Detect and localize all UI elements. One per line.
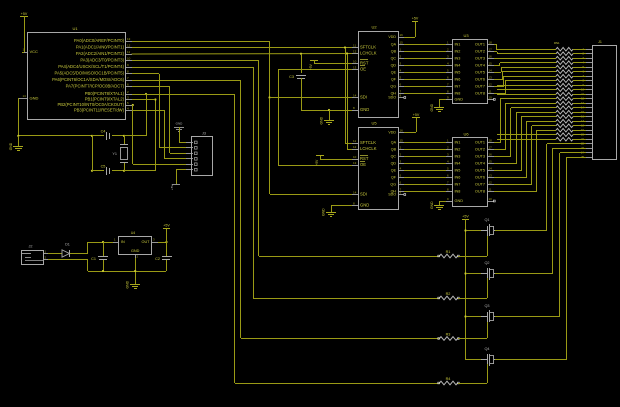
node SER junction bbox=[268, 96, 270, 98]
U3 pin 3 IN3 bbox=[446, 58, 452, 60]
power +5V below J3 bbox=[172, 184, 180, 186]
U2 pin 7 QH bbox=[398, 93, 404, 95]
svg-text:OUT: OUT bbox=[141, 240, 150, 244]
U5 pin 16 VDD bbox=[398, 132, 404, 134]
driver U6 body bbox=[453, 138, 488, 207]
svg-text:10: 10 bbox=[127, 57, 131, 61]
U5 OE overline bbox=[360, 161, 365, 163]
svg-text:QB: QB bbox=[391, 148, 397, 152]
U6 pin 16 OUT3 bbox=[487, 156, 494, 158]
U6 pin 2 IN2 bbox=[446, 149, 452, 151]
svg-text:GND: GND bbox=[320, 116, 324, 124]
resistor RN row 17 bbox=[556, 119, 573, 123]
U6 pin 4 IN4 bbox=[446, 163, 452, 165]
wire PA6 row to R3 bus bbox=[132, 80, 241, 82]
svg-text:+5V: +5V bbox=[462, 215, 469, 219]
svg-text:13: 13 bbox=[127, 37, 131, 41]
svg-text:13: 13 bbox=[489, 174, 493, 178]
resistor RN row 20 bbox=[556, 133, 573, 137]
U5 pin 11 SFTCLK bbox=[352, 143, 358, 145]
svg-text:Y1: Y1 bbox=[112, 152, 117, 156]
wire crystal bottom to PB1 bbox=[124, 170, 155, 172]
svg-text:13: 13 bbox=[489, 76, 493, 80]
U1 pin 5 PB2 bbox=[126, 105, 132, 107]
power +5V at U5 VDD bbox=[404, 132, 416, 134]
U3 pin 11 OUT8 bbox=[487, 93, 494, 95]
J1 pin 6 bbox=[586, 71, 592, 73]
node ground rail junction bbox=[17, 135, 19, 137]
U3 pin 12 OUT7 bbox=[487, 86, 494, 88]
wire SFTCLK down to U5 bbox=[345, 48, 347, 143]
wire J2 tip to D1 bbox=[48, 253, 62, 255]
J1 pin 17 bbox=[586, 121, 592, 123]
svg-text:12: 12 bbox=[127, 44, 131, 48]
J1 pin 25 bbox=[586, 157, 592, 159]
ground symbol at U5 bbox=[326, 212, 336, 214]
svg-text:VCC: VCC bbox=[30, 49, 39, 54]
svg-text:IN8: IN8 bbox=[455, 190, 461, 194]
ground symbol at U2 bbox=[324, 120, 334, 122]
svg-text:IN2: IN2 bbox=[455, 50, 461, 54]
U5 pin 13 OE bbox=[352, 165, 358, 167]
svg-text:GND: GND bbox=[126, 280, 130, 288]
svg-text:OUT3: OUT3 bbox=[475, 155, 485, 159]
svg-text:IN4: IN4 bbox=[455, 162, 461, 166]
resistor RN row 7 bbox=[556, 74, 573, 78]
connector J3 ISP header body bbox=[192, 137, 213, 176]
svg-text:GND: GND bbox=[455, 199, 464, 203]
transistor Q1 bbox=[466, 230, 481, 232]
svg-text:VDD: VDD bbox=[388, 131, 396, 135]
svg-text:OUT8: OUT8 bbox=[475, 190, 485, 194]
wire OE bus vertical bbox=[278, 70, 280, 165]
wire PA5 row to ISP pin2 bbox=[132, 73, 159, 75]
J3 pin 2 bbox=[186, 147, 193, 149]
J3 pin 4 bbox=[186, 158, 193, 160]
wires U2 outputs to U3 inputs bbox=[404, 44, 446, 46]
svg-text:R1: R1 bbox=[446, 250, 451, 254]
svg-text:SFTCLK: SFTCLK bbox=[360, 45, 376, 50]
svg-text:16: 16 bbox=[489, 153, 493, 157]
J1 pin 1 bbox=[586, 49, 592, 51]
U5 pin 6 QG bbox=[398, 184, 404, 186]
U4 pin 3 OUT stub bbox=[152, 242, 158, 244]
svg-text:PA1(ADC1/AIN0/PCINT1): PA1(ADC1/AIN0/PCINT1) bbox=[76, 45, 125, 50]
svg-text:IN2: IN2 bbox=[455, 148, 461, 152]
U3 pin 5 IN5 bbox=[446, 72, 452, 74]
transistor Q3 bbox=[466, 316, 481, 318]
svg-text:12: 12 bbox=[489, 83, 493, 87]
svg-text:QD: QD bbox=[391, 64, 397, 68]
svg-text:GND: GND bbox=[430, 103, 434, 111]
U3 pin 8 IN8 bbox=[446, 93, 452, 95]
wire SER bus down to U5 bbox=[269, 98, 271, 194]
wire GND to J3 pin1 bbox=[179, 127, 181, 142]
resistor RN row 12 bbox=[556, 97, 573, 101]
U5 pin 9 SDO bbox=[398, 194, 404, 196]
svg-text:10: 10 bbox=[489, 197, 493, 201]
resistor RN row 2 bbox=[556, 52, 573, 56]
svg-text:PB3(PCINT11/RESET/dW): PB3(PCINT11/RESET/dW) bbox=[74, 108, 125, 113]
svg-text:GND: GND bbox=[176, 122, 184, 126]
wire U4 GND down bbox=[135, 258, 137, 284]
svg-text:LCHCLK: LCHCLK bbox=[360, 51, 377, 56]
ground symbol left bbox=[13, 146, 23, 148]
svg-text:PA5(ADC5/DO/MISO/OC1B/PCINT5): PA5(ADC5/DO/MISO/OC1B/PCINT5) bbox=[55, 71, 125, 76]
wire crystal top to PB0 bbox=[124, 135, 146, 137]
U6 pin 14 OUT5 bbox=[487, 170, 494, 172]
node SFTCLK junction bbox=[344, 46, 346, 48]
U1 pin 11 PA2 bbox=[126, 54, 132, 56]
resistor RN row 10 bbox=[556, 88, 573, 92]
svg-text:VDD: VDD bbox=[388, 35, 396, 39]
U5 RST overline bbox=[360, 155, 368, 157]
J1 pin 5 bbox=[586, 67, 592, 69]
wire PB2 to ISP pin5 bbox=[132, 104, 134, 106]
svg-text:17: 17 bbox=[489, 146, 493, 150]
power +5V at U2 RST bbox=[310, 60, 318, 62]
svg-text:12: 12 bbox=[353, 50, 357, 54]
U5 pin 4 QE bbox=[398, 170, 404, 172]
svg-text:12: 12 bbox=[353, 145, 357, 149]
shift register U2 body bbox=[359, 32, 399, 118]
svg-text:+5V: +5V bbox=[309, 63, 313, 70]
power +5V rail for transistors bbox=[462, 219, 469, 221]
svg-text:SFTCLK: SFTCLK bbox=[360, 140, 376, 145]
U1 pin 2 PB0 bbox=[126, 94, 132, 96]
U6 pin 1 IN1 bbox=[446, 142, 452, 144]
U5 pin 10 RST bbox=[352, 159, 358, 161]
U3 pin 14 OUT5 bbox=[487, 72, 494, 74]
svg-text:OUT5: OUT5 bbox=[475, 169, 485, 173]
svg-text:IN6: IN6 bbox=[455, 78, 461, 82]
wire D1 to regulator input bbox=[70, 253, 88, 255]
svg-text:GND: GND bbox=[30, 96, 39, 101]
resistor RN row 16 bbox=[556, 115, 573, 119]
U5 pin 12 LCHCLK bbox=[352, 149, 358, 151]
svg-text:PA4(ADC4/USCK/SCL/T1/PCINT4): PA4(ADC4/USCK/SCL/T1/PCINT4) bbox=[58, 64, 124, 69]
svg-text:IN6: IN6 bbox=[455, 176, 461, 180]
resistor RN row 13 bbox=[556, 101, 573, 105]
svg-text:+5V: +5V bbox=[413, 113, 420, 117]
power +5V at U5 RST bbox=[316, 155, 324, 157]
svg-text:OE: OE bbox=[360, 162, 366, 167]
resistor RN row 19 bbox=[556, 128, 573, 132]
svg-text:Q3: Q3 bbox=[484, 304, 489, 308]
wire U2 GND bbox=[329, 110, 352, 112]
U2 pin 5 QF bbox=[398, 79, 404, 81]
svg-text:OUT7: OUT7 bbox=[475, 183, 485, 187]
svg-text:QD: QD bbox=[391, 162, 397, 166]
svg-text:Q1: Q1 bbox=[484, 218, 489, 222]
resistor RN row 5 bbox=[556, 65, 573, 69]
J1 pin 11 bbox=[586, 94, 592, 96]
U1 pin 6 PA7 bbox=[126, 86, 132, 88]
resistor RN row 14 bbox=[556, 106, 573, 110]
J1 pin 14 bbox=[586, 107, 592, 109]
svg-text:QG: QG bbox=[390, 183, 396, 187]
svg-text:11: 11 bbox=[353, 139, 356, 143]
U2 pin 1 QB bbox=[398, 51, 404, 53]
U1 pin 3 PB1 bbox=[126, 99, 132, 101]
U6 pin 8 IN8 bbox=[446, 191, 452, 193]
ground symbol below U4 bbox=[130, 284, 140, 286]
U2 SDO end bbox=[404, 97, 406, 99]
svg-text:QA: QA bbox=[391, 141, 397, 145]
svg-text:+5V: +5V bbox=[412, 17, 419, 21]
svg-text:PA2(ADC2/AIN1/PCINT2): PA2(ADC2/AIN1/PCINT2) bbox=[76, 51, 125, 56]
U5 pin 1 QB bbox=[398, 149, 404, 151]
U3 pin 9 GND bbox=[446, 99, 452, 101]
svg-text:C1: C1 bbox=[91, 257, 96, 261]
svg-text:OUT4: OUT4 bbox=[475, 162, 485, 166]
svg-text:QF: QF bbox=[391, 78, 397, 82]
svg-text:J1: J1 bbox=[598, 40, 602, 44]
U5 pin 14 SDI bbox=[352, 194, 358, 196]
wire row9 bbox=[497, 85, 556, 87]
svg-text:OUT4: OUT4 bbox=[475, 64, 485, 68]
svg-text:OUT1: OUT1 bbox=[475, 141, 485, 145]
svg-text:SDI: SDI bbox=[360, 192, 367, 197]
wire J2 sleeve to ground rail bbox=[48, 259, 88, 261]
J1 pin 22 bbox=[586, 143, 592, 145]
J1 pin 18 bbox=[586, 125, 592, 127]
J1 pin 23 bbox=[586, 148, 592, 150]
svg-text:12: 12 bbox=[489, 181, 493, 185]
node crystal top bbox=[123, 135, 125, 137]
U2 pin 10 RST bbox=[352, 63, 358, 65]
J1 pin 12 bbox=[586, 98, 592, 100]
regulator U4 body bbox=[119, 237, 152, 255]
svg-text:GND: GND bbox=[360, 107, 369, 112]
svg-text:QC: QC bbox=[391, 155, 397, 159]
svg-text:IN7: IN7 bbox=[455, 183, 461, 187]
U2 pin 2 QC bbox=[398, 58, 404, 60]
wire OE to U5 bbox=[278, 165, 352, 167]
svg-text:IN4: IN4 bbox=[455, 64, 461, 68]
svg-text:OUT2: OUT2 bbox=[475, 148, 485, 152]
U3 pin 4 IN4 bbox=[446, 65, 452, 67]
wire C5 leads bbox=[92, 170, 104, 172]
wire down to ground symbol bbox=[18, 136, 20, 146]
svg-text:QA: QA bbox=[391, 43, 397, 47]
svg-text:17: 17 bbox=[489, 48, 493, 52]
svg-text:13: 13 bbox=[353, 161, 357, 165]
svg-text:10: 10 bbox=[489, 95, 493, 99]
svg-text:QF: QF bbox=[391, 176, 397, 180]
wire LCHCLK down to U5 bbox=[347, 54, 349, 149]
svg-text:10: 10 bbox=[353, 60, 357, 64]
svg-text:GND: GND bbox=[9, 142, 13, 150]
svg-text:+5V: +5V bbox=[163, 224, 170, 228]
ground symbol at U6 bbox=[434, 205, 444, 207]
wire PB0 row to R4 bus bbox=[132, 94, 235, 96]
wire U5 GND bbox=[331, 205, 352, 207]
U5 pin 8 GND bbox=[352, 205, 358, 207]
svg-text:QE: QE bbox=[391, 71, 397, 75]
svg-text:PA7(PCINT7/ICP/OC0B/ADC7): PA7(PCINT7/ICP/OC0B/ADC7) bbox=[66, 84, 125, 89]
svg-text:14: 14 bbox=[353, 191, 357, 195]
svg-text:SDI: SDI bbox=[360, 95, 367, 100]
svg-text:14: 14 bbox=[489, 69, 493, 73]
U3 pin 6 IN6 bbox=[446, 79, 452, 81]
U6 pin 17 OUT2 bbox=[487, 149, 494, 151]
svg-text:PA0(ADC0/AREF/PCINT0): PA0(ADC0/AREF/PCINT0) bbox=[74, 38, 125, 43]
U6 pin 13 OUT6 bbox=[487, 177, 494, 179]
U5 pin 7 QH bbox=[398, 191, 404, 193]
J1 pin 4 bbox=[586, 62, 592, 64]
U2 pin 11 SFTCLK bbox=[352, 47, 358, 49]
svg-text:OUT1: OUT1 bbox=[475, 43, 485, 47]
wire C4 leads bbox=[92, 135, 104, 137]
svg-text:10: 10 bbox=[353, 155, 357, 159]
resistor RN row 21 bbox=[556, 137, 573, 141]
transistor Q2 bbox=[466, 273, 481, 275]
J3 pin 5 bbox=[186, 164, 193, 166]
svg-text:Q4: Q4 bbox=[484, 347, 489, 351]
resistor RN row 6 bbox=[556, 70, 573, 74]
resistor RN row 4 bbox=[556, 61, 573, 65]
svg-text:OE: OE bbox=[360, 67, 366, 72]
J1 pin 20 bbox=[586, 134, 592, 136]
svg-text:C2: C2 bbox=[155, 257, 160, 261]
wire SER to U2 pin 14 bbox=[270, 97, 352, 99]
svg-text:GND: GND bbox=[430, 201, 434, 209]
U6 pin 9 GND bbox=[446, 201, 452, 203]
U2 pin 16 VDD bbox=[398, 37, 404, 39]
J3 pin 3 bbox=[186, 153, 193, 155]
svg-text:15: 15 bbox=[400, 41, 404, 45]
svg-text:14: 14 bbox=[23, 94, 27, 98]
J1 pin 19 bbox=[586, 130, 592, 132]
U2 pin 13 OE bbox=[352, 69, 358, 71]
wire U4 OUT to +5V bbox=[158, 242, 166, 244]
wire PA3 row to R1 bus bbox=[132, 60, 259, 62]
svg-text:U6: U6 bbox=[463, 131, 469, 136]
U3 pin 13 OUT6 bbox=[487, 79, 494, 81]
svg-text:OUT7: OUT7 bbox=[475, 85, 485, 89]
svg-text:18: 18 bbox=[489, 41, 493, 45]
svg-text:OUT5: OUT5 bbox=[475, 71, 485, 75]
svg-text:PA3(ADC3/T0/PCINT3): PA3(ADC3/T0/PCINT3) bbox=[80, 58, 124, 63]
U6 pin 7 IN7 bbox=[446, 184, 452, 186]
wire U1 GND to ground rail bbox=[18, 98, 20, 136]
U5 SDO end bbox=[404, 194, 406, 196]
svg-text:D1: D1 bbox=[65, 243, 70, 247]
J1 pin 21 bbox=[586, 139, 592, 141]
node PB0 tap bbox=[145, 93, 147, 95]
svg-text:QC: QC bbox=[391, 57, 397, 61]
svg-text:QE: QE bbox=[391, 169, 397, 173]
node crystal bottom bbox=[123, 170, 125, 172]
U3 pin 10 COM bbox=[487, 99, 494, 101]
svg-text:16: 16 bbox=[400, 129, 404, 133]
connector J2 barrel jack bbox=[22, 251, 44, 265]
svg-text:SDO: SDO bbox=[388, 96, 396, 100]
resistor RN row 1 bbox=[556, 47, 573, 51]
U3 pin 15 OUT4 bbox=[487, 65, 494, 67]
svg-text:OUT3: OUT3 bbox=[475, 57, 485, 61]
U1 pin 14 GND bbox=[18, 98, 28, 100]
U6 pin 10 COM bbox=[487, 201, 494, 203]
power +5V at U2 VDD bbox=[404, 37, 415, 39]
J1 pin 9 bbox=[586, 85, 592, 87]
svg-text:PB1(PCINT9/XTAL2): PB1(PCINT9/XTAL2) bbox=[85, 97, 125, 102]
U3 pin 2 IN2 bbox=[446, 51, 452, 53]
svg-text:GND: GND bbox=[455, 98, 464, 102]
wire row21 bbox=[497, 139, 556, 141]
U6 pin 3 IN3 bbox=[446, 156, 452, 158]
U2 pin 12 LCHCLK bbox=[352, 53, 358, 55]
resistor RN row 3 bbox=[556, 56, 573, 60]
svg-text:GND: GND bbox=[360, 203, 369, 208]
svg-text:18: 18 bbox=[489, 139, 493, 143]
power +5V output bbox=[163, 228, 170, 230]
U2 RST overline bbox=[360, 59, 368, 61]
svg-text:C5: C5 bbox=[101, 164, 106, 168]
U1 pin 10 PA3 bbox=[126, 60, 132, 62]
svg-text:15: 15 bbox=[489, 62, 493, 66]
svg-text:16: 16 bbox=[489, 55, 493, 59]
driver U3 body bbox=[453, 40, 488, 104]
svg-text:OUT6: OUT6 bbox=[475, 176, 485, 180]
U1 pin 7 PA6 bbox=[126, 80, 132, 82]
node crystal ring bottom-left bbox=[91, 170, 93, 172]
svg-text:RN1: RN1 bbox=[554, 41, 560, 45]
U5 pin 5 QF bbox=[398, 177, 404, 179]
svg-text:11: 11 bbox=[489, 188, 492, 192]
svg-text:RST: RST bbox=[360, 156, 369, 161]
svg-text:+5V: +5V bbox=[170, 185, 174, 190]
svg-text:C4: C4 bbox=[101, 130, 106, 134]
power +5V at U1 VCC bbox=[20, 16, 28, 18]
svg-text:U4: U4 bbox=[131, 231, 135, 235]
svg-text:16: 16 bbox=[400, 33, 404, 37]
J1 pin 15 bbox=[586, 112, 592, 114]
svg-text:+5V: +5V bbox=[315, 159, 319, 166]
node LCHCLK junction bbox=[346, 52, 348, 54]
svg-text:14: 14 bbox=[353, 94, 357, 98]
svg-text:IN5: IN5 bbox=[455, 71, 461, 75]
capacitor C1 bbox=[102, 241, 104, 243]
node crystal ring top-left bbox=[91, 135, 93, 137]
wire PA4 row to R2 bus bbox=[132, 67, 253, 69]
U6 pin 18 OUT1 bbox=[487, 142, 494, 144]
svg-text:R4: R4 bbox=[446, 377, 451, 381]
svg-text:LCHCLK: LCHCLK bbox=[360, 146, 377, 151]
svg-text:PB0(PCINT8/XTAL1): PB0(PCINT8/XTAL1) bbox=[85, 91, 125, 96]
U1 pin 13 PA0 bbox=[126, 41, 132, 43]
U1 pin 8 PA5 bbox=[126, 73, 132, 75]
svg-text:IN5: IN5 bbox=[455, 169, 461, 173]
svg-text:GND: GND bbox=[322, 208, 326, 216]
wire row10 bbox=[497, 89, 556, 91]
svg-text:R2: R2 bbox=[446, 292, 451, 296]
svg-text:11: 11 bbox=[127, 50, 130, 54]
svg-text:13: 13 bbox=[353, 66, 357, 70]
svg-text:J3: J3 bbox=[202, 132, 206, 136]
U4 pin 1 IN stub bbox=[113, 242, 119, 244]
svg-text:15: 15 bbox=[489, 160, 493, 164]
U6 pin 15 OUT4 bbox=[487, 163, 494, 165]
U1 pin 1 VCC bbox=[22, 52, 28, 54]
U2 pin 4 QE bbox=[398, 72, 404, 74]
U4 pin 2 GND stub bbox=[135, 254, 137, 258]
wire row20 bbox=[497, 134, 556, 136]
svg-text:IN3: IN3 bbox=[455, 155, 461, 159]
crystal Y1 bbox=[124, 136, 126, 144]
svg-text:U3: U3 bbox=[463, 33, 469, 38]
